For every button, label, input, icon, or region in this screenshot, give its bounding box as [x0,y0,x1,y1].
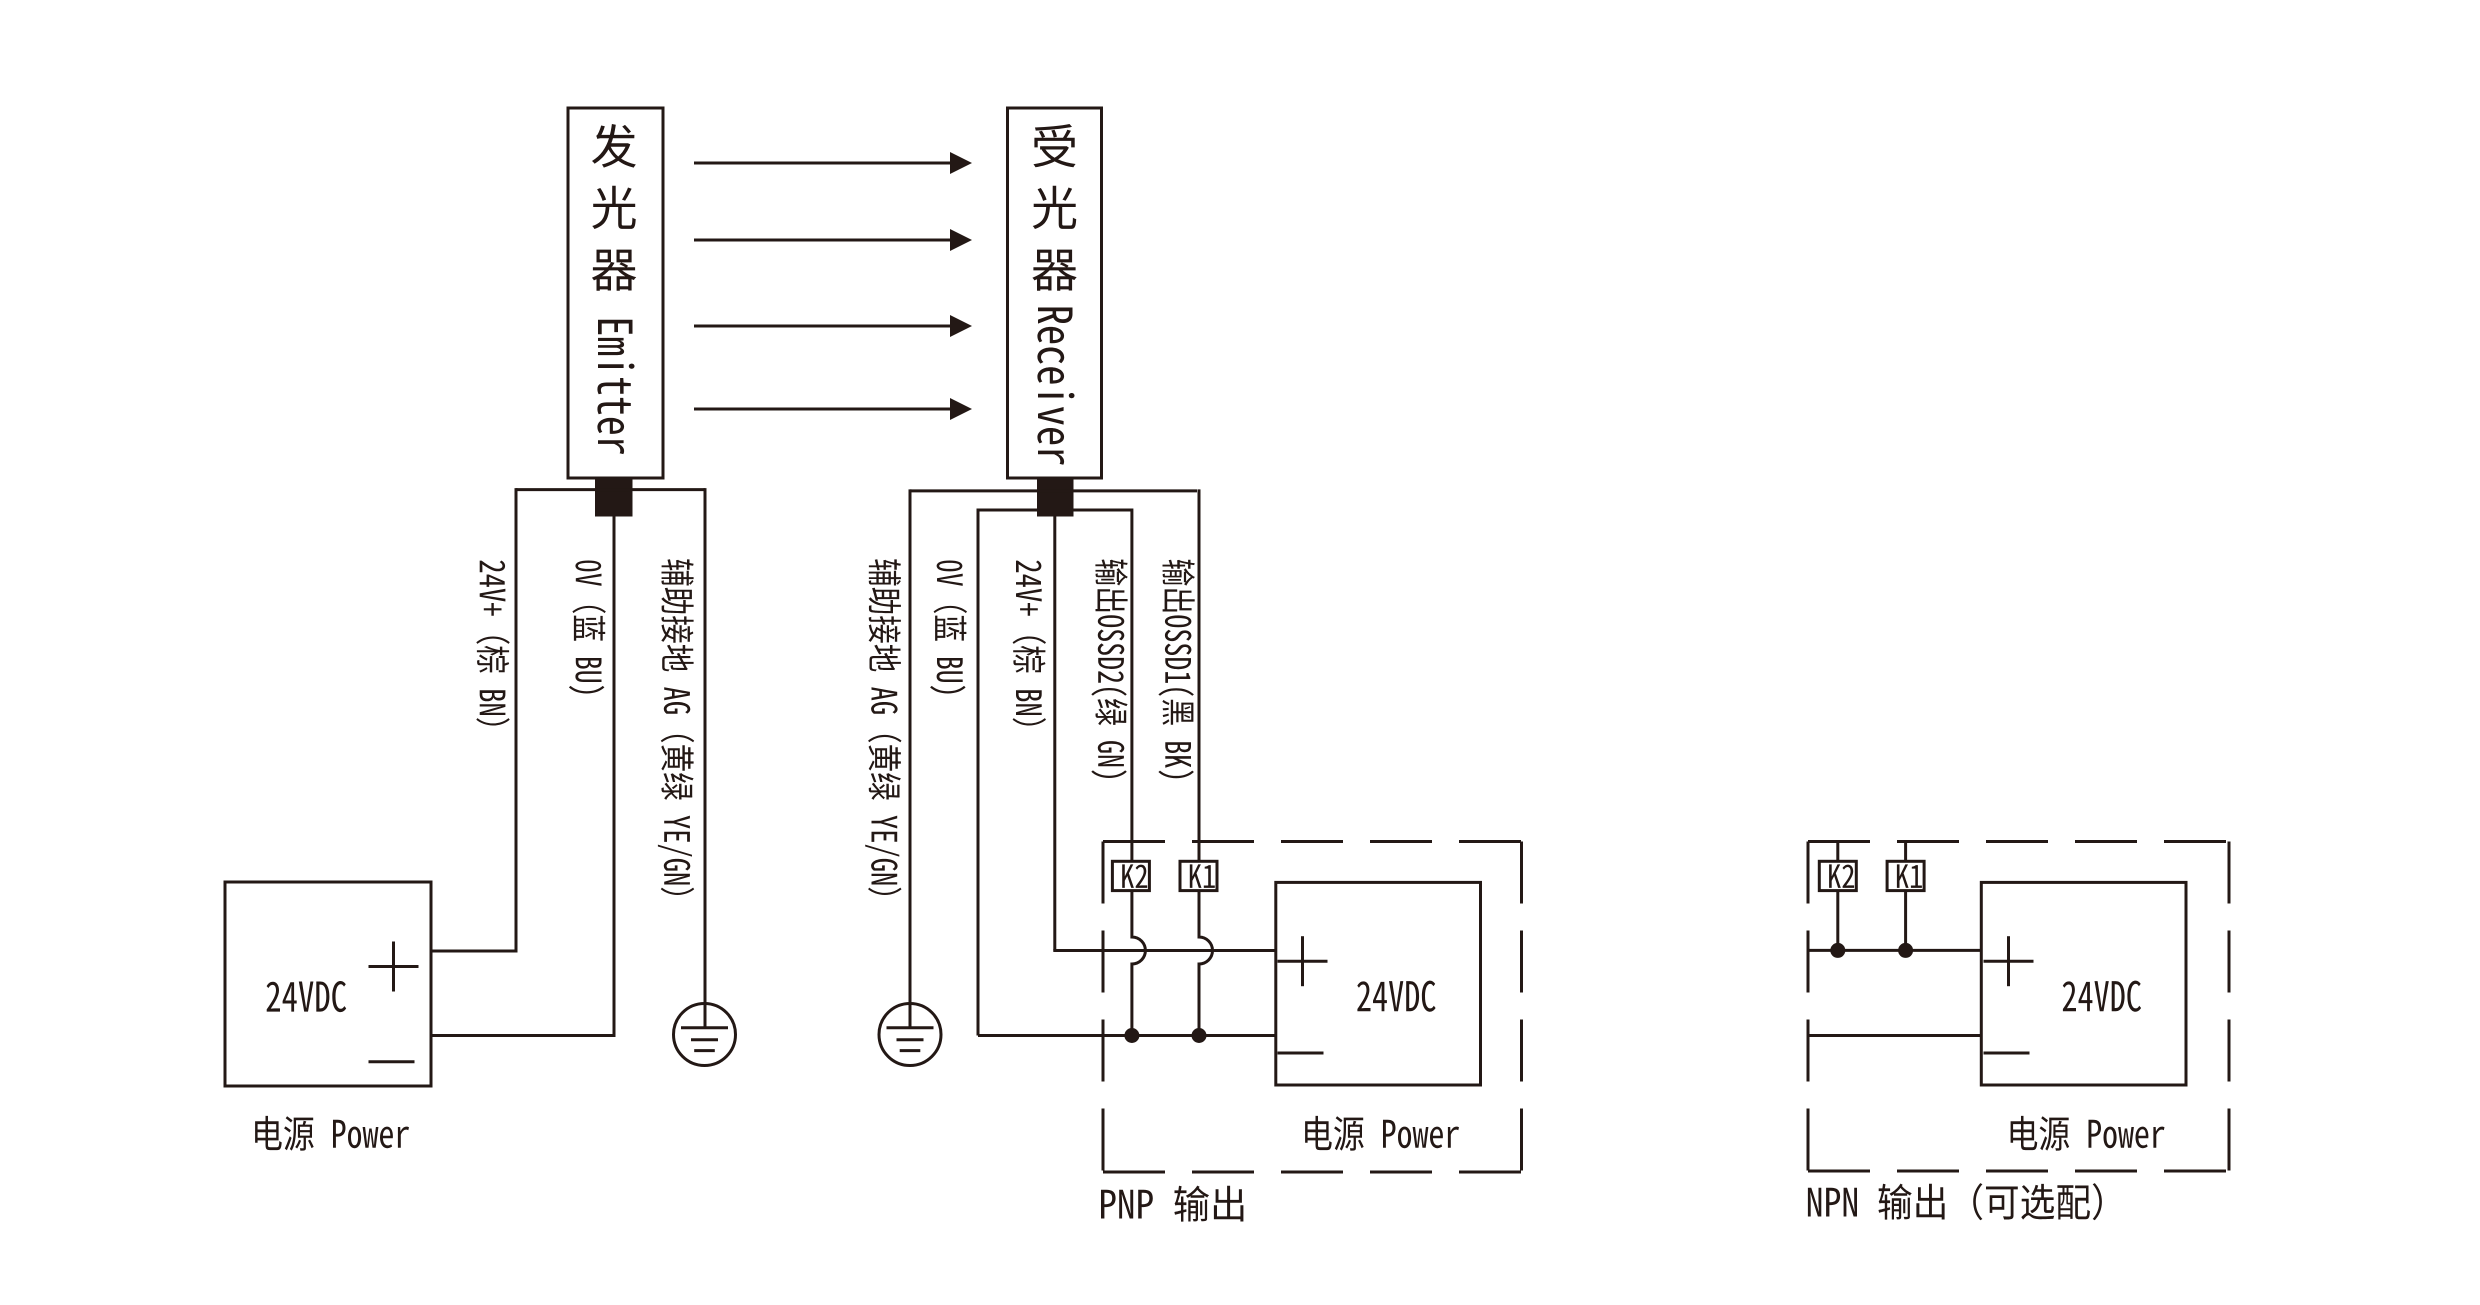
beam arrow 2 [694,239,951,242]
wire OSSD1 lower with hop over 24V rail [1199,890,1213,1036]
PS2 minus terminal [1278,1052,1324,1055]
NPN junction dot K2 [1830,943,1845,958]
PS1 plus terminal [369,965,419,968]
PS3 label 24VDC [2063,981,2141,1012]
PNP dashed border left [1102,842,1105,1173]
wire 24V+ BN emitter vertical [515,488,518,951]
PS1 minus terminal [369,1060,415,1063]
PS2 plus terminal [1278,960,1328,963]
ground G1 bar1 [681,1026,728,1029]
wire 24V+ BN receiver [1053,516,1056,951]
NPN dashed border top [1808,840,2229,843]
wire receiver second rail [978,509,1132,512]
NPN dashed border bottom [1808,1170,2229,1173]
receiver label Receiver [1037,308,1074,465]
emitter label CJK guang [592,186,636,229]
NPN relay K2 box [1819,861,1856,890]
receiver label CJK shou [1033,124,1075,167]
NPN plus rail [1808,949,1981,952]
PS1 caption [255,1116,409,1151]
power supply box PS1 [225,882,431,1086]
beam arrow 4 [694,408,951,411]
power supply box PS2 [1276,882,1481,1085]
NPN caption [1808,1183,2102,1220]
wire OSSD2 upper [1130,509,1133,863]
power supply box PS3 [1981,882,2186,1085]
relay K1 text [1190,864,1215,888]
receiver connector [1037,480,1074,517]
PS3 minus terminal [1984,1052,2030,1055]
ground G2 bar3 [900,1049,921,1052]
beam arrow 1 [694,162,951,165]
ground G1 circle [674,1004,736,1066]
PNP dashed border bottom [1103,1171,1522,1174]
NPN dashed border right [2228,842,2231,1172]
ground G1 bar2 [691,1038,718,1041]
PS2 caption [1305,1116,1459,1151]
wire AG receiver [909,489,912,1027]
wire receiver top rail [910,489,1197,492]
NPN relay K2 text [1829,864,1854,888]
label 24V+ receiver [1013,561,1046,726]
NPN dashed border left [1807,842,1810,1172]
wire 0V BU emitter [430,516,615,1036]
ground G2 bar2 [897,1038,924,1041]
relay K2 text [1122,864,1147,888]
NPN junction dot K1 [1898,943,1913,958]
junction dot K1-0V [1192,1028,1207,1043]
wire AG emitter [704,488,707,1028]
relay K2 box [1112,861,1149,890]
label 0V emitter [569,561,606,694]
emitter label CJK fa [592,124,636,168]
emitter label Emitter [597,320,634,454]
receiver box [1008,108,1102,478]
NPN minus rail [1808,1034,1981,1037]
PS3 plus terminal [1984,960,2034,963]
label OSSD2 [1091,560,1127,779]
wire 0V BU receiver vertical [977,509,980,1036]
label 24V+ emitter [476,561,509,726]
label 0V receiver [930,561,967,694]
beam arrow 3 [694,325,951,328]
ground G2 circle [879,1004,941,1066]
PS2 label 24VDC [1357,981,1435,1012]
ground G1 bar3 [694,1049,715,1052]
label AG emitter [658,559,694,895]
wire OSSD1 upper [1198,489,1201,862]
relay K1 box [1180,861,1217,890]
NPN relay K1 box [1887,861,1924,890]
emitter connector [595,480,633,517]
wire OSSD2 lower with hop over 24V rail [1132,890,1146,1036]
NPN relay K1 text [1897,864,1922,888]
wire 24V+ rail to PS2 [1053,949,1276,952]
receiver label CJK qi [1032,250,1076,291]
receiver label CJK guang [1033,186,1077,229]
PNP dashed border top [1103,840,1522,843]
NPN wire K1 [1904,842,1907,862]
wire 0V rail to PS2 [978,1034,1276,1037]
PNP dashed border right [1520,842,1523,1173]
label AG receiver [865,559,901,895]
PS1 label 24VDC [267,981,347,1012]
emitter box [568,108,663,478]
PS3 caption [2011,1116,2165,1151]
wire 24V+ BN emitter horizontal [430,950,518,953]
PNP caption [1101,1186,1243,1222]
ground G2 bar1 [887,1026,934,1029]
wire emitter top rail [516,488,705,491]
NPN wire K2 [1836,842,1839,862]
junction dot K2-0V [1124,1028,1139,1043]
label OSSD1 [1158,560,1194,779]
emitter label CJK qi [592,250,636,291]
